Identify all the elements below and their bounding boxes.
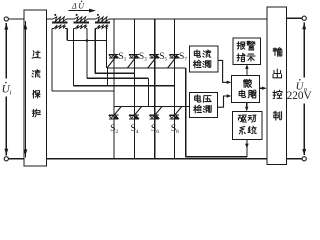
output voltage annotation arrow Uo xyxy=(303,23,305,78)
transformer T2 polarity dot xyxy=(76,14,78,16)
current detection box DianLiuJianCe xyxy=(189,46,218,72)
wire T3 left leg xyxy=(94,29,96,74)
wire microcomputer to driver xyxy=(246,102,248,110)
wire column 1 from top rail to bottom rail xyxy=(113,19,115,159)
wire top rail from input terminal to protection box xyxy=(8,18,24,20)
thyristor switch S2 xyxy=(109,115,119,116)
wire T3 right leg down to top gate bus xyxy=(105,29,107,68)
wire bottom rail right of output control box xyxy=(287,158,303,160)
gate lead S6 xyxy=(154,107,162,116)
svg-text:i: i xyxy=(10,90,12,97)
gate lead S4 xyxy=(134,107,142,116)
overcurrent protection box GuoLiuBaoHu xyxy=(24,10,46,166)
svg-text:7: 7 xyxy=(184,57,187,63)
microcomputer box WeiDianNao xyxy=(232,76,260,103)
node output terminal top-right xyxy=(302,16,306,20)
wire bottom rail from input terminal to protection box xyxy=(8,158,24,160)
wire common bus bottom row xyxy=(113,106,189,108)
thyristor switch S6 xyxy=(150,115,160,116)
label DianYaJianCe xyxy=(195,95,201,102)
driver box QuDongXiTong xyxy=(233,112,262,140)
node output terminal bottom-right xyxy=(302,157,306,161)
wire microcomputer to output control xyxy=(259,87,265,89)
wire rail segment box to T1 xyxy=(47,18,54,20)
svg-text:8: 8 xyxy=(176,129,179,135)
wire tap W2 from T3 left leg to column 2 xyxy=(95,72,134,74)
wire output control box to top-right terminal xyxy=(287,17,303,19)
wire column 2 from top rail to bottom rail xyxy=(133,19,135,159)
wire tap W4 from T2 left leg to column 4 xyxy=(73,85,174,87)
gate lead S3 xyxy=(127,56,136,68)
wire microcomputer to alarm indicator xyxy=(246,66,248,76)
thyristor switch S1 xyxy=(109,54,119,55)
thyristor switch S8 xyxy=(169,115,179,116)
arrow delta-U direction xyxy=(69,10,91,12)
transformer T1 polarity dot xyxy=(54,14,56,16)
wire top rail from T3 to output control box xyxy=(109,18,267,20)
transformer T2 secondary winding xyxy=(75,25,87,28)
wire T2 left leg xyxy=(72,29,74,86)
voltage detection box DianYaJianCe xyxy=(189,92,217,117)
wire tap drop W3 end to bottom bus xyxy=(148,78,150,106)
wire T1 left leg xyxy=(51,29,53,91)
gate lead S2 xyxy=(114,107,122,116)
wire rail segment T1 to T2 xyxy=(66,18,74,20)
wire tap W3 from T2 right leg xyxy=(87,77,149,79)
wire gate strand horizontal xyxy=(186,156,247,158)
wire column 3 from top rail to bottom rail xyxy=(154,19,156,159)
thyristor switch S4 xyxy=(129,115,139,116)
transformer T1 secondary winding xyxy=(54,25,66,28)
wire voltage detection to microcomputer xyxy=(218,96,230,107)
label ShuChuKongZhi vertical xyxy=(273,48,282,56)
thyristor switch S7 xyxy=(169,54,179,55)
node input terminal bottom-left xyxy=(4,157,8,161)
transformer T3 secondary stubs xyxy=(95,28,97,30)
wire driver gate drive down xyxy=(246,140,248,157)
transformer T1 secondary stubs xyxy=(52,28,54,30)
svg-text:6: 6 xyxy=(156,129,159,135)
label WeiDianNao xyxy=(243,79,251,87)
wire junction J1 vertical xyxy=(106,68,108,86)
transformer T2 primary winding xyxy=(74,17,87,21)
transformer T3 core xyxy=(95,22,110,24)
gate lead S8 xyxy=(174,107,182,116)
wire bottom rail from protection box to output control box xyxy=(47,158,267,160)
svg-text:220V: 220V xyxy=(287,90,313,102)
output control box ShuChuKongZhi xyxy=(267,7,287,164)
transformer T3 primary winding xyxy=(96,17,109,21)
transformer T2 secondary stubs xyxy=(73,28,75,30)
junction dot T2 right leg on HW1 xyxy=(86,39,89,42)
transformer T2 core xyxy=(74,22,89,24)
wire column 4 from top rail to bottom rail xyxy=(174,19,176,159)
transformer T3 polarity dot xyxy=(97,14,99,16)
wire gate bus top row xyxy=(107,67,186,69)
alarm indicator box BaoJingZhiShi xyxy=(233,38,260,64)
node input terminal top-left xyxy=(4,17,8,21)
svg-text:2: 2 xyxy=(115,129,118,135)
label DianLiuJianCe xyxy=(194,50,200,57)
svg-text:1: 1 xyxy=(124,57,127,63)
label BaoJingZhiShi xyxy=(237,42,245,50)
gate lead S1 xyxy=(107,56,116,68)
wire current detection to microcomputer xyxy=(218,60,230,82)
gate lead S5 xyxy=(148,56,157,68)
thyristor switch S5 xyxy=(150,54,160,55)
transformer T1 core xyxy=(52,22,67,24)
wire gate strand riser to top gate bus xyxy=(185,68,187,157)
transformer T1 primary winding xyxy=(53,17,66,21)
svg-text:4: 4 xyxy=(136,129,139,135)
wire secondary common HW1 xyxy=(67,40,106,42)
current direction arrow inside protection box xyxy=(24,21,26,157)
wire rail segment T2 to T3 xyxy=(88,18,96,20)
thyristor switch S3 xyxy=(129,54,139,55)
transformer T3 secondary winding xyxy=(97,25,109,28)
label QuDongXiTong xyxy=(238,115,246,122)
label GuoLiuBaoHu vertical text xyxy=(32,51,40,58)
svg-text:3: 3 xyxy=(144,57,147,63)
wire T2 right leg down through HW1 xyxy=(86,29,88,79)
gate lead S7 xyxy=(168,56,177,68)
wire T1 right leg xyxy=(66,29,68,41)
input voltage annotation arrow Ui xyxy=(5,23,7,79)
svg-text:Δ: Δ xyxy=(71,2,77,11)
svg-text:5: 5 xyxy=(164,57,167,63)
wire tap W5 from T1 left leg to column 1 xyxy=(52,90,114,92)
